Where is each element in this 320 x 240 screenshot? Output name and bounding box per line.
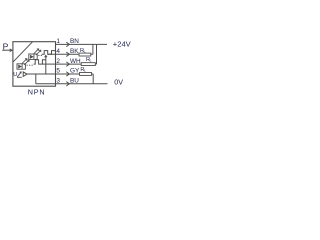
wire row1 BN to +24V rail <box>56 43 108 45</box>
svg-text:BU: BU <box>70 78 79 85</box>
svg-text:+24V: +24V <box>113 40 132 49</box>
wire row4 GY <box>56 73 80 75</box>
wire row3 WH <box>56 63 82 65</box>
svg-text:GY: GY <box>70 68 80 75</box>
row3 wire inside to edge <box>42 63 55 65</box>
svg-text:L: L <box>90 59 92 63</box>
U variable arrow <box>17 76 22 78</box>
svg-text:5: 5 <box>56 68 60 75</box>
inner row5 wire <box>36 83 56 85</box>
svg-text:3: 3 <box>56 78 60 85</box>
svg-text:WH: WH <box>70 58 81 65</box>
pin numbers <box>56 38 60 84</box>
riser row3 to +24V <box>96 44 98 64</box>
svg-text:0V: 0V <box>114 77 123 86</box>
svg-text:2: 2 <box>56 58 60 65</box>
diagonal optical axis line <box>13 42 32 62</box>
riser row4 down to 0V <box>92 74 94 84</box>
P arrow wire <box>2 49 10 51</box>
svg-text:BN: BN <box>70 38 79 45</box>
inner vertical from A1 down to row4 <box>45 55 47 74</box>
P arrowhead <box>10 49 12 52</box>
resistor RL row4 <box>80 73 92 76</box>
wire arrows <box>66 42 69 46</box>
emitter LED D1 <box>29 49 41 60</box>
dashed link D2 to output symbol <box>27 64 34 66</box>
svg-text:1: 1 <box>56 38 60 45</box>
square wave output symbol A1 (row2) <box>42 51 56 55</box>
amplifier triangle <box>23 72 27 77</box>
triangle output wire row4 <box>27 73 56 75</box>
resistor RL row2 <box>79 53 91 56</box>
svg-text:L: L <box>84 50 86 54</box>
row2 wire inside to edge <box>48 53 56 55</box>
square wave output symbol A2 (row3) <box>34 60 46 64</box>
wire color labels <box>70 38 81 84</box>
receiver LED D2 <box>17 59 29 70</box>
resistor RL row3 <box>81 63 95 66</box>
svg-text:L: L <box>84 69 86 73</box>
svg-text:NPN: NPN <box>28 88 46 97</box>
dashed link D1 to output symbol <box>38 55 42 57</box>
svg-text:4: 4 <box>56 48 60 55</box>
junction tick <box>45 55 47 57</box>
wire row5 BU to 0V <box>56 83 108 85</box>
RL labels <box>80 48 92 73</box>
riser row2 to +24V <box>92 44 94 54</box>
svg-text:BK: BK <box>70 48 79 55</box>
sensor body box <box>13 42 56 86</box>
wire row2 BK <box>56 53 80 55</box>
inner vertical row4 to row5 <box>35 74 37 84</box>
svg-text:U: U <box>13 72 17 78</box>
